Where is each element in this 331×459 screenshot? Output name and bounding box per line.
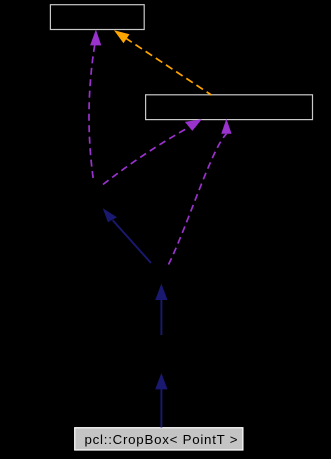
wire: blue solid vertical edge (upper) [160, 298, 162, 335]
node pcl::CropBox< PointT > box [75, 428, 243, 450]
wire: orange dashed edge [125, 38, 211, 95]
wire: purple dashed long spline edge to middle box right arrowhead [169, 134, 227, 265]
node box (top, empty) [50, 5, 144, 30]
arrowhead orange [114, 30, 130, 43]
wire: blue solid diagonal edge [113, 220, 151, 263]
node label pcl::CropBox< PointT > [85, 432, 239, 447]
arrowhead blue vertical upper [155, 284, 167, 300]
wire: blue solid vertical edge (lower) [160, 389, 162, 428]
wire: purple dashed diagonal edge to middle box left arrowhead [103, 127, 189, 184]
arrowhead purple into middle box (angled) [185, 119, 202, 131]
wire: purple dashed vertical edge [89, 45, 95, 182]
arrowhead purple top [90, 30, 101, 46]
arrowhead blue diagonal [103, 208, 117, 222]
arrowhead purple into middle box (vertical) [221, 119, 231, 134]
arrowhead blue vertical lower [155, 373, 167, 389]
node box (middle right, empty) [146, 95, 313, 120]
